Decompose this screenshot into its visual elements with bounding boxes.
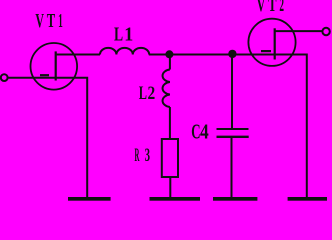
svg-text:V: V bbox=[257, 0, 266, 16]
transistor VT1 bbox=[31, 43, 78, 90]
label VT1 bbox=[35, 10, 62, 32]
svg-text:1: 1 bbox=[124, 24, 133, 46]
wire source VT1 bbox=[56, 78, 87, 198]
label L2 bbox=[139, 83, 155, 104]
ground (C4) bbox=[213, 197, 257, 201]
svg-text:3: 3 bbox=[145, 145, 150, 166]
label R3 bbox=[135, 145, 151, 166]
svg-text:4: 4 bbox=[200, 120, 209, 144]
wire node B to C4 bbox=[231, 55, 233, 129]
wire L1 to node A bbox=[149, 54, 233, 56]
svg-text:V: V bbox=[35, 10, 44, 32]
input terminal bbox=[1, 74, 8, 81]
inductor L2 bbox=[163, 70, 170, 108]
transistor VT2 bbox=[248, 19, 295, 66]
wire R3 to ground bbox=[169, 177, 171, 198]
ground (VT2 source) bbox=[288, 197, 327, 201]
svg-text:2: 2 bbox=[279, 0, 284, 16]
svg-text:2: 2 bbox=[148, 83, 156, 104]
svg-text:1: 1 bbox=[58, 10, 63, 32]
label VT2 bbox=[257, 0, 284, 16]
wire drain VT2 bbox=[275, 30, 323, 32]
node B bbox=[228, 50, 236, 58]
inductor L1 bbox=[100, 48, 149, 55]
svg-text:L: L bbox=[139, 83, 147, 104]
wire C4 to ground bbox=[231, 137, 233, 198]
label C4 bbox=[191, 120, 209, 144]
resistor R3 bbox=[162, 139, 178, 177]
wire gate VT2 bbox=[232, 54, 274, 56]
capacitor C4 bbox=[217, 129, 249, 137]
svg-text:R: R bbox=[135, 145, 140, 166]
label L1 bbox=[114, 24, 133, 46]
svg-text:T: T bbox=[268, 0, 277, 16]
node A bbox=[165, 50, 173, 58]
wire node A to L2 bbox=[169, 55, 171, 70]
ground (VT1 source) bbox=[68, 197, 111, 201]
output terminal bbox=[322, 28, 329, 35]
svg-text:L: L bbox=[114, 24, 123, 46]
wire drain VT1 bbox=[56, 54, 100, 56]
ground (R3) bbox=[150, 197, 201, 201]
svg-text:T: T bbox=[47, 10, 56, 32]
wire L2 to R3 bbox=[169, 107, 171, 139]
wire gate VT1 bbox=[8, 77, 56, 79]
wire source VT2 bbox=[275, 55, 307, 198]
